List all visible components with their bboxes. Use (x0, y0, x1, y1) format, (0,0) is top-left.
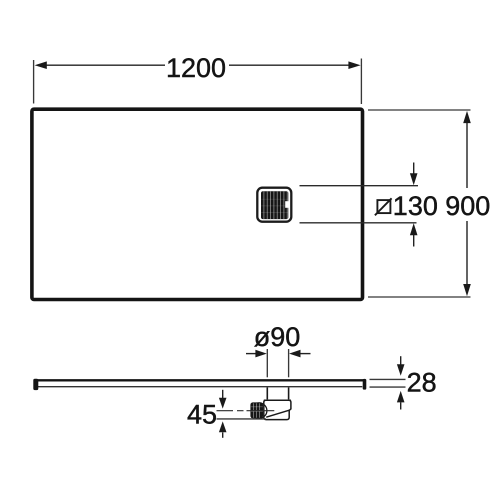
svg-text:900: 900 (445, 191, 490, 221)
svg-text:45: 45 (187, 400, 217, 430)
svg-text:28: 28 (407, 368, 437, 398)
svg-text:ø90: ø90 (254, 322, 301, 352)
svg-text:1200: 1200 (166, 53, 226, 83)
svg-text:130: 130 (393, 191, 438, 221)
